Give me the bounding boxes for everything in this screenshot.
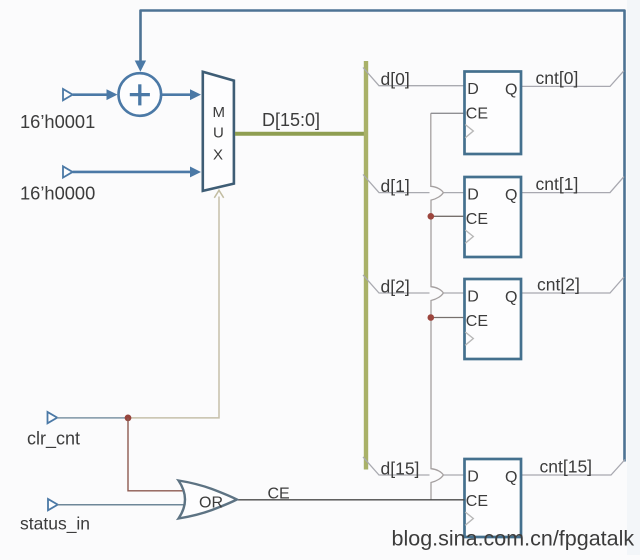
- flip-flop FF1: [465, 177, 522, 257]
- svg-text:Q: Q: [505, 81, 517, 98]
- bus vertical d: [364, 61, 368, 470]
- svg-text:CE: CE: [466, 313, 488, 330]
- svg-text:d[0]: d[0]: [381, 69, 410, 89]
- adder U_add: [119, 73, 162, 116]
- wire cnt[2]: [521, 277, 624, 293]
- wire d[0] tap: [363, 68, 465, 86]
- or-gate OR: [179, 481, 237, 519]
- wire 16'h0001 to adder: [73, 93, 107, 96]
- wire adder to MUX: [161, 93, 190, 96]
- wire d[15] tap: [363, 457, 465, 475]
- svg-text:clr_cnt: clr_cnt: [27, 429, 80, 450]
- wire cnt[0]: [521, 71, 624, 87]
- svg-text:OR: OR: [199, 495, 223, 512]
- svg-text:d[1]: d[1]: [381, 176, 410, 196]
- svg-text:CE: CE: [466, 105, 488, 122]
- wire 16'h0000 to MUX: [73, 171, 191, 174]
- svg-text:D[15:0]: D[15:0]: [262, 110, 320, 130]
- node input status_in triangle: [48, 499, 58, 510]
- svg-text:Q: Q: [505, 469, 517, 486]
- svg-text:16’h0001: 16’h0001: [20, 111, 95, 132]
- arrowhead select into MUX: [214, 190, 223, 198]
- node input clr_cnt triangle: [48, 412, 58, 423]
- wire clr_cnt: [57, 417, 128, 419]
- svg-text:cnt[15]: cnt[15]: [540, 457, 593, 477]
- wire MUX select from clr_cnt (tan): [128, 197, 219, 418]
- wire cnt[15]: [521, 460, 625, 476]
- wire feedback top: [141, 11, 625, 462]
- mux MUX: [203, 72, 234, 191]
- wire CE stub FF2: [431, 215, 465, 217]
- wire d[1] tap: [363, 175, 465, 193]
- svg-text:D: D: [467, 186, 479, 203]
- junction dot clr_cnt: [125, 415, 132, 422]
- svg-text:d[2]: d[2]: [381, 277, 410, 297]
- svg-text:D: D: [467, 288, 479, 305]
- wire status_in: [58, 504, 188, 506]
- svg-text:Q: Q: [505, 289, 517, 306]
- svg-text:blog.sina.com.cn/fpgatalk: blog.sina.com.cn/fpgatalk: [392, 527, 635, 551]
- junction dot CE d1: [428, 213, 435, 220]
- wire CE stub FF3: [431, 317, 465, 319]
- svg-text:X: X: [213, 147, 223, 164]
- arrowhead into adder top: [135, 61, 146, 72]
- svg-text:cnt[0]: cnt[0]: [536, 68, 579, 88]
- svg-text:cnt[1]: cnt[1]: [536, 174, 579, 194]
- svg-text:D: D: [467, 81, 479, 98]
- flip-flop FF2: [465, 279, 522, 359]
- wire clr_cnt to OR: [128, 418, 188, 491]
- wire d[2] tap: [363, 275, 465, 293]
- node input 16'h0000 triangle: [63, 166, 73, 177]
- svg-text:cnt[2]: cnt[2]: [537, 275, 580, 295]
- wire bus D[15:0] thick: [235, 132, 368, 136]
- wire CE stub FF1: [431, 112, 465, 114]
- flip-flop FF15: [465, 459, 522, 537]
- wire CE vertical with hops: [431, 113, 444, 500]
- svg-text:CE: CE: [268, 486, 290, 503]
- wire CE from OR to FF15: [237, 499, 465, 501]
- svg-text:U: U: [213, 125, 224, 142]
- svg-text:16’h0000: 16’h0000: [20, 182, 95, 203]
- wire cnt[1]: [521, 177, 624, 193]
- svg-text:Q: Q: [505, 187, 517, 204]
- svg-text:M: M: [213, 104, 226, 121]
- svg-text:D: D: [467, 468, 479, 485]
- flip-flop FF0: [465, 72, 522, 155]
- svg-text:status_in: status_in: [20, 514, 90, 535]
- node input 16'h0001 triangle: [63, 89, 73, 100]
- junction dot CE d2: [428, 314, 435, 321]
- svg-text:d[15]: d[15]: [381, 458, 420, 478]
- svg-text:CE: CE: [466, 211, 488, 228]
- svg-text:CE: CE: [466, 493, 488, 510]
